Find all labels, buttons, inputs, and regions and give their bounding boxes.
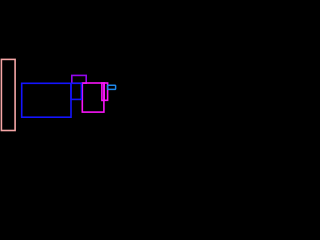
purple metal2 rectangle (small, top center) [72, 75, 86, 83]
blue metal1 rectangle (large, center-left) [22, 83, 71, 117]
pink well region outline (left tall rectangle) [1, 59, 15, 130]
magenta cell outline (large, center-right) [82, 83, 104, 112]
dodger-blue port flag rectangle [108, 85, 116, 89]
magenta contact A (narrow tall rect) [102, 83, 104, 100]
magenta contact B (narrow tall rect) [104, 83, 107, 100]
blue metal1 rectangle 2 (small, right of large) [71, 83, 81, 99]
